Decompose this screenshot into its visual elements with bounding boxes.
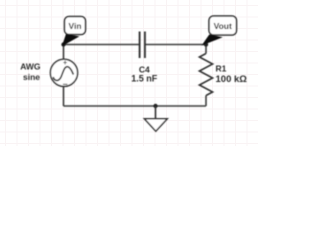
svg-text:Vin: Vin [68,21,81,31]
node Vout junction [204,42,208,46]
capacitor C4 plates [140,32,145,59]
svg-text:Vout: Vout [214,21,232,31]
wire source bottom [63,86,65,106]
flag Vin [63,35,78,46]
svg-text:1.5 nF: 1.5 nF [131,74,158,84]
wire source top [63,45,65,60]
node Vin junction [61,42,65,46]
wire bottom [64,105,207,107]
resistor R1 zigzag [199,54,212,96]
node ground junction [153,104,157,108]
wire top-right segment [145,44,206,46]
svg-text:R1: R1 [216,63,227,73]
source V1 (AWG sine) [50,59,77,86]
svg-text:sine: sine [23,72,40,82]
flag Vout [203,35,221,45]
label Vin box [65,17,86,35]
wire resistor bottom [205,96,207,107]
svg-text:AWG: AWG [20,62,41,72]
wire resistor top [205,45,207,54]
label Vout box [209,16,237,35]
svg-text:100 kΩ: 100 kΩ [216,74,248,85]
ground [144,106,167,131]
wire top-left segment [64,44,140,46]
